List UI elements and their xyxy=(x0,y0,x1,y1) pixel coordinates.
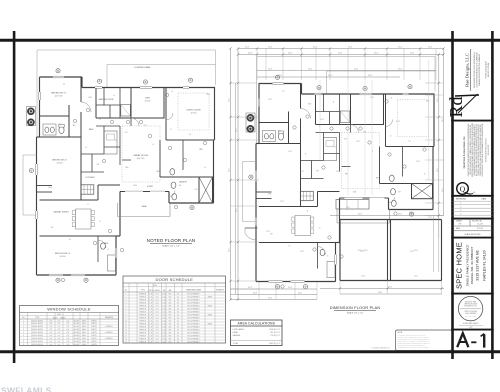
svg-text:2868: 2868 xyxy=(133,185,137,187)
svg-text:3'-0": 3'-0" xyxy=(49,338,53,340)
svg-text:6: 6 xyxy=(23,335,24,337)
svg-text:PROJECT No.: PROJECT No. xyxy=(472,220,483,222)
svg-text:3'-0": 3'-0" xyxy=(49,332,53,334)
powder toilet xyxy=(391,200,396,206)
svg-text:12'-4": 12'-4" xyxy=(354,69,359,71)
wall: left jog xyxy=(256,143,259,145)
svg-text:3'-0": 3'-0" xyxy=(49,323,53,325)
svg-text:BEDROOM #2: BEDROOM #2 xyxy=(52,160,67,162)
svg-text:10'-6": 10'-6" xyxy=(437,98,439,102)
svg-text:10' CLG: 10' CLG xyxy=(145,101,152,103)
bath1 toilet xyxy=(59,126,64,133)
title: NOTED FLOOR PLAN xyxy=(147,238,196,247)
master toilets xyxy=(170,169,175,175)
svg-text:2'-8": 2'-8" xyxy=(149,329,153,331)
svg-text:3'-0": 3'-0" xyxy=(49,329,53,331)
svg-text:1-3/4: 1-3/4 xyxy=(162,320,166,322)
svg-text:11'-8": 11'-8" xyxy=(300,171,304,173)
sheet number A-1 xyxy=(457,333,484,347)
svg-text:EGRESS: EGRESS xyxy=(105,332,113,334)
svg-text:2'-8": 2'-8" xyxy=(149,296,153,298)
wall: top bedroom3 xyxy=(40,76,83,78)
svg-text:8'-0": 8'-0" xyxy=(156,293,160,295)
svg-text:REPRODUCED WITHOUT WRITTEN PER: REPRODUCED WITHOUT WRITTEN PERMISSION. T… xyxy=(398,339,431,341)
svg-text:WH: WH xyxy=(51,227,54,229)
svg-text:16: 16 xyxy=(327,256,329,258)
svg-text:12'-4": 12'-4" xyxy=(398,214,403,216)
svg-text:2'-8": 2'-8" xyxy=(149,338,153,340)
svg-text:WH: WH xyxy=(398,192,401,194)
border bottom xyxy=(0,350,500,353)
svg-text:SINGLE HUNG: SINGLE HUNG xyxy=(31,341,43,343)
svg-text:FRENCH: FRENCH xyxy=(139,314,146,316)
svg-text:KITCHEN: KITCHEN xyxy=(86,177,95,179)
svg-text:10'-6": 10'-6" xyxy=(236,128,238,132)
kitchen counters xyxy=(324,138,337,161)
svg-text:2'-8": 2'-8" xyxy=(149,320,153,322)
door tags xyxy=(293,126,296,129)
svg-text:10'-6": 10'-6" xyxy=(442,118,444,122)
svg-text:14: 14 xyxy=(125,332,127,334)
svg-text:SINGLE HUNG: SINGLE HUNG xyxy=(31,329,43,331)
svg-text:WHITE: WHITE xyxy=(91,341,97,343)
svg-text:SINGLE HUNG: SINGLE HUNG xyxy=(31,332,43,334)
svg-text:3: 3 xyxy=(126,299,127,301)
svg-text:WH: WH xyxy=(97,164,100,166)
room: guest suite xyxy=(385,94,387,147)
windows xyxy=(273,83,284,85)
svg-text:EGRESS: EGRESS xyxy=(105,326,113,328)
svg-text:14'-0": 14'-0" xyxy=(414,276,418,278)
wall: powder xyxy=(380,197,389,199)
slider openings xyxy=(345,197,363,199)
svg-text:EGRESS: EGRESS xyxy=(105,338,113,340)
svg-text:2'-8": 2'-8" xyxy=(149,314,153,316)
wall: bottom right xyxy=(389,209,434,211)
dining table xyxy=(76,209,92,229)
svg-text:REF: REF xyxy=(345,174,348,176)
svg-text:SNGL: SNGL xyxy=(82,329,87,331)
svg-text:12'-4": 12'-4" xyxy=(248,53,253,55)
door arcs xyxy=(301,109,311,119)
svg-text:FOYER: FOYER xyxy=(147,186,154,188)
bath4 toilet xyxy=(320,249,325,255)
wall: dining top xyxy=(259,206,318,208)
svg-text:ALUM: ALUM xyxy=(74,322,79,325)
left floor plan xyxy=(23,50,216,282)
porch overhang xyxy=(242,162,244,222)
svg-text:2: 2 xyxy=(126,296,127,298)
svg-text:10'-6": 10'-6" xyxy=(229,98,231,102)
svg-text:NOTE:: NOTE: xyxy=(398,332,403,334)
svg-text:12'-0" CLG: 12'-0" CLG xyxy=(137,158,146,160)
svg-text:1-3/4: 1-3/4 xyxy=(162,332,166,334)
svg-text:8'-0": 8'-0" xyxy=(156,341,160,343)
svg-text:GREAT ROOM: GREAT ROOM xyxy=(133,154,148,157)
wall: powder xyxy=(160,191,169,193)
svg-text:8'-0": 8'-0" xyxy=(156,296,160,298)
svg-text:2'-8": 2'-8" xyxy=(149,308,153,310)
svg-text:1-3/4: 1-3/4 xyxy=(162,335,166,337)
svg-text:DEN: DEN xyxy=(145,98,150,100)
svg-text:ALUM: ALUM xyxy=(74,331,79,334)
svg-text:16: 16 xyxy=(125,338,127,340)
bath4 tub xyxy=(108,255,116,271)
svg-text:8'-0": 8'-0" xyxy=(156,305,160,307)
svg-text:6: 6 xyxy=(126,308,127,310)
svg-text:1-3/4: 1-3/4 xyxy=(162,308,166,310)
svg-text:SINGLE HUNG: SINGLE HUNG xyxy=(31,338,43,340)
svg-text:11: 11 xyxy=(125,323,127,325)
svg-text:WINDOW SCHEDULE: WINDOW SCHEDULE xyxy=(47,307,91,312)
svg-text:11'-8": 11'-8" xyxy=(356,141,360,143)
svg-text:WIDTH: WIDTH xyxy=(53,317,58,319)
seal circle xyxy=(458,296,483,329)
svg-text:5'-4": 5'-4" xyxy=(57,320,61,322)
door arcs xyxy=(81,102,91,112)
svg-text:DOOR SCHEDULE: DOOR SCHEDULE xyxy=(156,277,194,282)
svg-text:9: 9 xyxy=(126,317,127,319)
svg-text:12'-4": 12'-4" xyxy=(288,53,293,55)
svg-text:REVIEWED FOR STRUCTURE ONLY: REVIEWED FOR STRUCTURE ONLY xyxy=(485,138,487,162)
svg-text:3319 3137 AVE NE: 3319 3137 AVE NE xyxy=(476,250,480,281)
svg-text:SNGL: SNGL xyxy=(82,335,87,337)
svg-text:NAPLES FL 34120: NAPLES FL 34120 xyxy=(482,250,486,280)
svg-text:4'-0": 4'-0" xyxy=(66,341,70,343)
svg-text:8: 8 xyxy=(23,341,24,343)
walls: master closets/hall detail xyxy=(323,94,325,112)
svg-text:2'-8": 2'-8" xyxy=(149,335,153,337)
svg-text:8'-0": 8'-0" xyxy=(156,320,160,322)
svg-text:FRENCH: FRENCH xyxy=(139,329,146,331)
svg-text:FRENCH: FRENCH xyxy=(139,326,146,328)
bath1 sinks xyxy=(43,124,56,135)
titleblock right vertical xyxy=(491,31,494,359)
wire: roof overhang outline xyxy=(37,50,216,137)
svg-text:23'-4": 23'-4" xyxy=(410,213,414,215)
svg-text:BED ROOM #4: BED ROOM #4 xyxy=(55,253,71,255)
svg-text:4'-0": 4'-0" xyxy=(66,335,70,337)
svg-text:SNGL: SNGL xyxy=(82,341,87,343)
svg-text:15: 15 xyxy=(125,335,127,337)
door schedule table xyxy=(123,276,226,343)
svg-text:WHITE: WHITE xyxy=(91,320,97,322)
bath1 toilet xyxy=(278,133,283,140)
svg-text:2868: 2868 xyxy=(48,187,52,189)
svg-text:8'-0": 8'-0" xyxy=(156,311,160,313)
svg-text:12: 12 xyxy=(319,228,321,230)
svg-text:12'-4": 12'-4" xyxy=(338,53,343,55)
svg-text:1-3/4: 1-3/4 xyxy=(162,302,166,304)
svg-text:12'-4": 12'-4" xyxy=(278,75,283,77)
svg-text:3-0: 3-0 xyxy=(288,246,290,248)
svg-text:Q: Q xyxy=(460,184,466,193)
wall: jog xyxy=(301,84,303,95)
notes box xyxy=(396,330,452,350)
svg-text:FRENCH: FRENCH xyxy=(139,335,146,337)
svg-text:11'-8": 11'-8" xyxy=(396,121,400,123)
svg-text:7: 7 xyxy=(23,338,24,340)
dimension numbers xyxy=(229,47,444,300)
svg-text:MASTER SUITE: MASTER SUITE xyxy=(99,98,114,101)
svg-text:FRENCH: FRENCH xyxy=(139,341,146,343)
svg-text:1-3/4: 1-3/4 xyxy=(162,311,166,313)
svg-text:11'-8": 11'-8" xyxy=(428,217,432,219)
titleblock separators xyxy=(451,120,494,122)
tub xyxy=(340,111,350,123)
wall: top main xyxy=(82,87,215,89)
svg-text:10'-6": 10'-6" xyxy=(437,168,439,172)
svg-text:10' CLG: 10' CLG xyxy=(60,256,67,258)
svg-text:12'-4": 12'-4" xyxy=(313,47,318,49)
svg-text:• •: • • xyxy=(473,191,476,194)
svg-text:11'-8": 11'-8" xyxy=(336,171,340,173)
svg-text:11'-8": 11'-8" xyxy=(300,251,304,253)
wire: roof overhang outline xyxy=(257,57,436,144)
wire: lanai roof line xyxy=(327,70,436,72)
wall: kitchen xyxy=(318,191,340,193)
svg-text:REF: REF xyxy=(157,171,160,173)
svg-text:12'-4": 12'-4" xyxy=(308,69,313,71)
wall: bedroom2 top xyxy=(259,143,301,145)
right plan dimension lines xyxy=(229,47,444,300)
wire: lanai south xyxy=(337,222,390,224)
svg-text:11'-8": 11'-8" xyxy=(410,251,414,253)
svg-text:12'-4": 12'-4" xyxy=(398,47,403,49)
svg-text:5: 5 xyxy=(126,305,127,307)
svg-text:12: 12 xyxy=(99,119,101,121)
wall: left jog xyxy=(37,136,40,138)
wall: left outer lower xyxy=(36,137,38,275)
titleblock left vertical xyxy=(451,31,454,359)
svg-text:ALUM: ALUM xyxy=(74,325,79,328)
svg-text:1-3/4: 1-3/4 xyxy=(162,317,166,319)
wall: master suite xyxy=(315,94,317,125)
svg-text:FRENCH: FRENCH xyxy=(139,320,146,322)
svg-text:1-3/4: 1-3/4 xyxy=(162,341,166,343)
walls: master closets/hall detail xyxy=(103,88,105,106)
project title: SPEC HOME xyxy=(455,242,487,289)
svg-text:SNGL: SNGL xyxy=(82,332,87,334)
wall: left outer lower xyxy=(255,144,257,282)
wire: lanai roof line xyxy=(107,64,216,66)
master toilets xyxy=(389,175,394,181)
svg-text:12'-4": 12'-4" xyxy=(428,47,433,49)
svg-text:12' CLG: 12' CLG xyxy=(191,113,198,115)
svg-text:1-3/4: 1-3/4 xyxy=(162,329,166,331)
svg-text:1-3/4: 1-3/4 xyxy=(162,293,166,295)
svg-text:REF: REF xyxy=(278,131,281,133)
wall: right side xyxy=(213,140,215,203)
wall: wing divider xyxy=(40,235,117,237)
svg-text:12: 12 xyxy=(170,129,172,131)
svg-text:2868: 2868 xyxy=(88,97,92,99)
wall: bedroom2 top xyxy=(40,136,82,138)
svg-text:8: 8 xyxy=(126,314,127,316)
svg-text:2'-8": 2'-8" xyxy=(149,341,153,343)
svg-text:BEDROOM #3: BEDROOM #3 xyxy=(51,93,66,95)
AC units xyxy=(27,107,36,126)
svg-text:HEIGHT: HEIGHT xyxy=(60,317,65,319)
svg-text:11'-8": 11'-8" xyxy=(268,99,272,101)
room: den xyxy=(351,94,384,125)
wall: left outer upper xyxy=(39,77,41,137)
svg-text:4'-0": 4'-0" xyxy=(66,338,70,340)
svg-text:729 SQ. FT.: 729 SQ. FT. xyxy=(270,335,280,337)
svg-text:11'-8": 11'-8" xyxy=(370,97,374,99)
svg-text:2'-8": 2'-8" xyxy=(149,323,153,325)
svg-text:SNGL: SNGL xyxy=(82,323,87,325)
kitchen counters xyxy=(104,131,117,154)
svg-text:4'-0": 4'-0" xyxy=(66,344,70,346)
svg-text:11'-8": 11'-8" xyxy=(320,119,324,121)
wall: kitchen xyxy=(98,184,120,186)
svg-text:9: 9 xyxy=(23,344,24,346)
svg-text:ALUM: ALUM xyxy=(74,328,79,331)
wall: wing bottom xyxy=(256,281,336,283)
svg-text:4: 4 xyxy=(23,329,24,331)
svg-text:5'-4": 5'-4" xyxy=(57,332,61,334)
svg-text:DIMENSION FLOOR PLAN: DIMENSION FLOOR PLAN xyxy=(330,306,381,310)
svg-text:3'-0": 3'-0" xyxy=(49,335,53,337)
svg-text:TYPE: TYPE xyxy=(141,290,145,292)
svg-text:12'-4": 12'-4" xyxy=(358,214,363,216)
svg-text:3-0: 3-0 xyxy=(115,140,117,142)
svg-text:SNGL: SNGL xyxy=(82,344,87,346)
wall: great room south (sliders) xyxy=(120,191,169,193)
svg-text:12'-0" CLG: 12'-0" CLG xyxy=(55,96,64,98)
tub xyxy=(121,105,131,117)
svg-text:11'-8": 11'-8" xyxy=(360,251,364,253)
svg-text:4: 4 xyxy=(126,302,127,304)
svg-text:WHITE: WHITE xyxy=(91,332,97,334)
dining table xyxy=(295,216,311,236)
svg-text:17: 17 xyxy=(125,341,127,343)
svg-text:FRENCH: FRENCH xyxy=(139,305,146,307)
svg-text:5'-4": 5'-4" xyxy=(57,329,61,331)
svg-text:REVISIONS: REVISIONS xyxy=(456,199,467,201)
room: den xyxy=(131,88,164,119)
svg-text:2'-8": 2'-8" xyxy=(149,311,153,313)
svg-text:8'-0": 8'-0" xyxy=(156,308,160,310)
entry walls xyxy=(37,185,53,187)
svg-text:4'-0": 4'-0" xyxy=(66,332,70,334)
svg-text:5'-4": 5'-4" xyxy=(57,344,61,346)
svg-text:SINGLE HUNG: SINGLE HUNG xyxy=(31,344,43,346)
svg-text:12: 12 xyxy=(390,136,392,138)
svg-text:11'-8": 11'-8" xyxy=(416,161,420,163)
entry walls xyxy=(256,191,272,193)
svg-text:8'-0": 8'-0" xyxy=(156,338,160,340)
svg-text:8'-0": 8'-0" xyxy=(156,332,160,334)
svg-text:2'-8": 2'-8" xyxy=(149,293,153,295)
svg-text:12: 12 xyxy=(319,126,321,128)
revisions table xyxy=(453,198,493,216)
porch overhang xyxy=(22,155,24,215)
border left vertical xyxy=(13,31,16,363)
wall: guest right xyxy=(433,94,435,147)
svg-text:REF: REF xyxy=(59,124,62,126)
svg-text:12'-4": 12'-4" xyxy=(268,69,273,71)
svg-text:12'-4": 12'-4" xyxy=(368,75,373,77)
svg-text:8'-0": 8'-0" xyxy=(156,302,160,304)
wall: bottom right xyxy=(169,202,214,204)
slider openings xyxy=(125,191,143,193)
svg-text:AREA CALCULATIONS: AREA CALCULATIONS xyxy=(238,322,276,326)
svg-text:10'-6": 10'-6" xyxy=(236,208,238,212)
wall: top bedroom3 xyxy=(259,83,302,85)
svg-text:SCALE: 1/4" = 1'-0": SCALE: 1/4" = 1'-0" xyxy=(347,312,364,315)
svg-text:2: 2 xyxy=(23,323,24,325)
svg-text:SIZE: SIZE xyxy=(153,285,157,287)
svg-text:SINGLE HUNG: SINGLE HUNG xyxy=(31,320,43,322)
wall: wing bottom xyxy=(37,274,117,276)
right plan shower X box xyxy=(412,184,433,199)
svg-text:SPEC HOME: SPEC HOME xyxy=(455,242,464,289)
svg-text:LANAI: LANAI xyxy=(233,331,239,334)
svg-text:SNGL: SNGL xyxy=(82,326,87,328)
svg-text:12'-4": 12'-4" xyxy=(268,47,273,49)
svg-text:12'-4": 12'-4" xyxy=(268,298,273,300)
garage divider double wall xyxy=(387,220,389,281)
svg-text:SINGLE FAMILY RESIDENCE: SINGLE FAMILY RESIDENCE xyxy=(465,245,469,287)
svg-text:NOTED FLOOR PLAN: NOTED FLOOR PLAN xyxy=(147,238,196,243)
wall: wing divider xyxy=(259,242,336,244)
svg-text:12'-4": 12'-4" xyxy=(298,293,303,295)
svg-text:JOB No 05-1182: JOB No 05-1182 xyxy=(488,145,490,155)
dashed ceiling: great room xyxy=(342,133,380,189)
svg-text:12'-8": 12'-8" xyxy=(361,276,365,278)
svg-text:WHITE: WHITE xyxy=(91,335,97,337)
kitchen island appliance xyxy=(81,185,94,194)
svg-text:WHITE: WHITE xyxy=(91,338,97,340)
wall: hall vertical xyxy=(300,84,302,109)
wall: master bath block xyxy=(159,140,161,177)
svg-text:WHITE: WHITE xyxy=(91,344,97,346)
svg-text:2,846 SQ. FT.: 2,846 SQ. FT. xyxy=(269,329,281,331)
svg-text:SCALE: 1/4" = 1'-0": SCALE: 1/4" = 1'-0" xyxy=(162,244,180,247)
svg-text:TOTAL: TOTAL xyxy=(233,342,239,345)
bath4 tub xyxy=(327,262,335,278)
svg-text:1: 1 xyxy=(126,293,127,295)
svg-text:10'-6": 10'-6" xyxy=(229,248,231,252)
svg-text:WHITE: WHITE xyxy=(91,329,97,331)
svg-text:5'-4": 5'-4" xyxy=(57,323,61,325)
wall: bath4 xyxy=(317,243,319,269)
svg-text:3'-0": 3'-0" xyxy=(49,320,53,322)
svg-text:GUEST SUITE: GUEST SUITE xyxy=(186,110,201,112)
svg-text:FRENCH: FRENCH xyxy=(139,293,146,295)
wall: wing right xyxy=(115,236,117,275)
svg-text:ALUM: ALUM xyxy=(74,343,79,346)
dashed ceiling: great room xyxy=(122,126,160,182)
svg-text:12'-4": 12'-4" xyxy=(398,69,403,71)
svg-text:WIDTH: WIDTH xyxy=(148,290,153,292)
wall: great room south (sliders) xyxy=(340,197,389,199)
svg-text:ALUM: ALUM xyxy=(74,334,79,337)
svg-text:FRENCH: FRENCH xyxy=(139,338,146,340)
svg-text:1-3/4: 1-3/4 xyxy=(162,323,166,325)
svg-text:11'-4": 11'-4" xyxy=(414,250,419,252)
svg-text:3,887 SQ. FT.: 3,887 SQ. FT. xyxy=(269,343,281,345)
svg-text:12: 12 xyxy=(119,91,121,93)
svg-text:10'-6": 10'-6" xyxy=(229,168,231,172)
svg-text:PHONE (239) 555-0128: PHONE (239) 555-0128 xyxy=(486,61,488,78)
svg-text:8'-0": 8'-0" xyxy=(156,323,160,325)
svg-text:DESIGNER No. 5512: DESIGNER No. 5512 xyxy=(464,306,477,308)
svg-text:GARAGE: GARAGE xyxy=(233,334,241,337)
svg-text:1-3/4: 1-3/4 xyxy=(162,296,166,298)
